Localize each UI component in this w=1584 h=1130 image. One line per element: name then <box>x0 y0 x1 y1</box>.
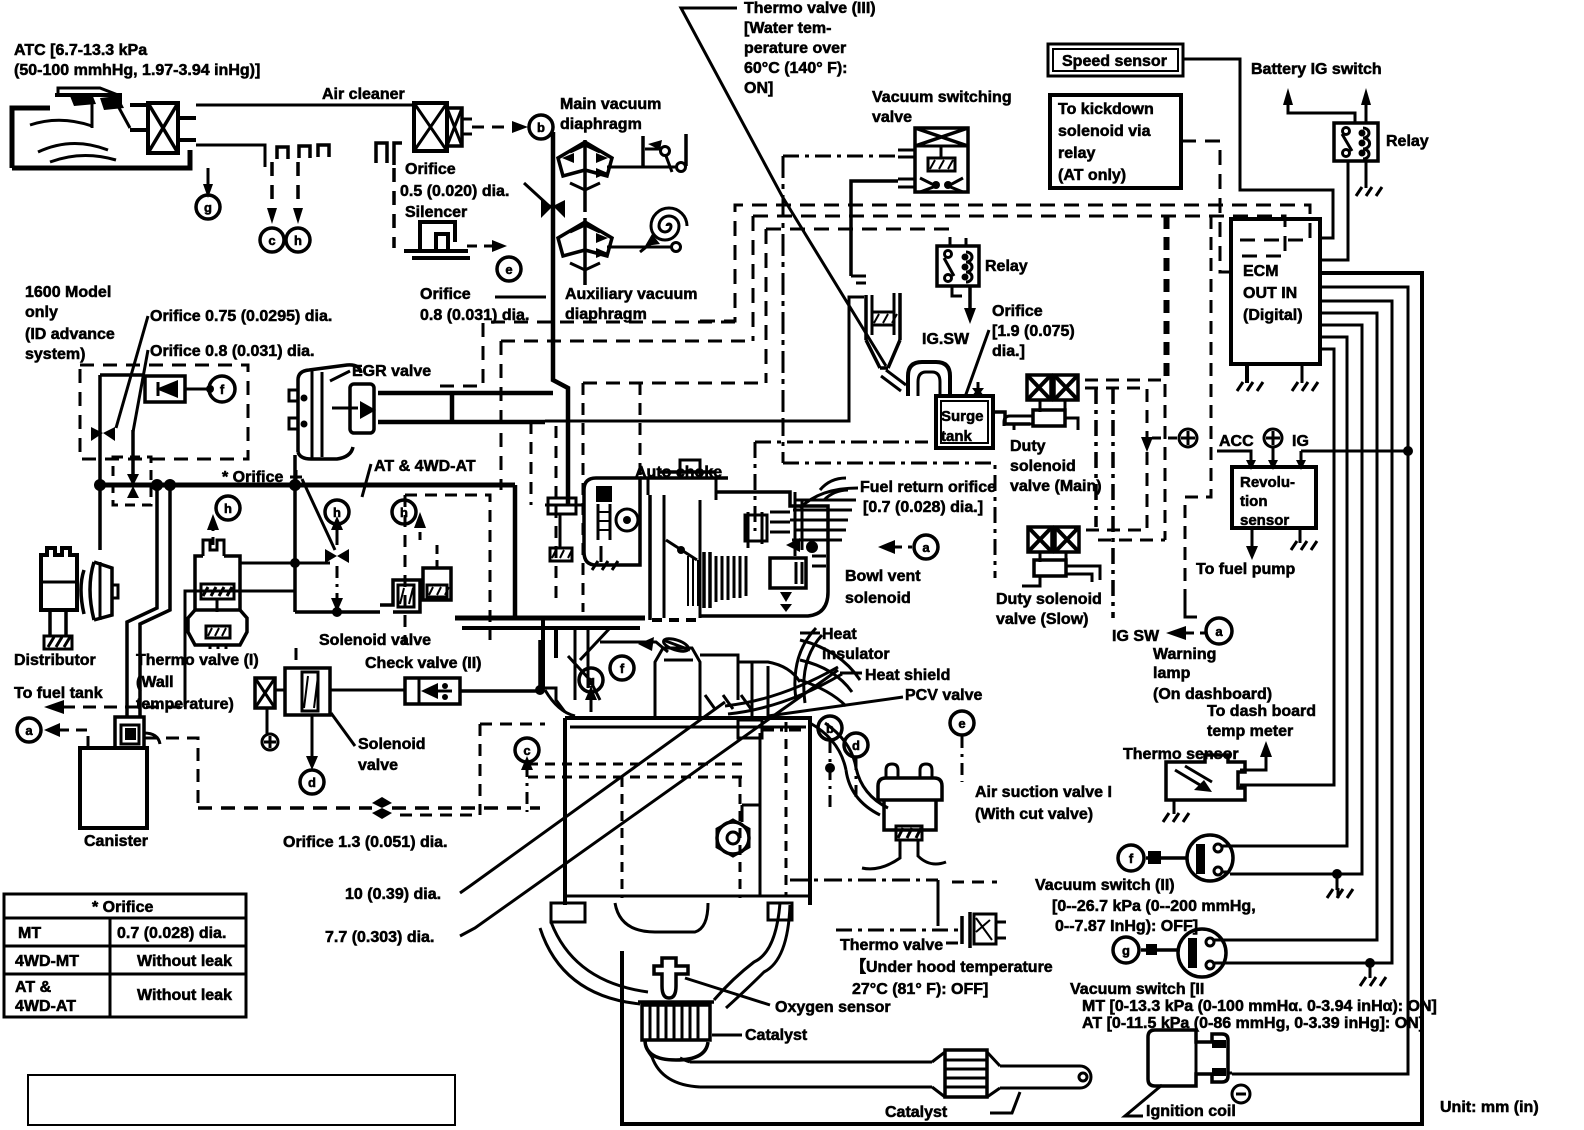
svg-text:Ignition coil: Ignition coil <box>1146 1103 1236 1120</box>
auxiliary vacuum diaphragm <box>558 208 687 285</box>
node f vacuum switch <box>1118 845 1144 871</box>
svg-text:b: b <box>537 120 545 135</box>
wire 10 dia leader <box>460 702 725 893</box>
svg-text:valve (Main): valve (Main) <box>1010 478 1102 495</box>
vacuum switch f <box>1146 835 1233 881</box>
vacuum switching valve <box>898 128 968 192</box>
wire ACC <box>1217 451 1251 462</box>
svg-text:AT & 4WD-AT: AT & 4WD-AT <box>374 458 476 475</box>
wire heat insulator leader <box>800 632 820 635</box>
svg-text:Thermo valve (I): Thermo valve (I) <box>136 652 259 669</box>
svg-text:1600 Model: 1600 Model <box>25 284 111 301</box>
svg-text:Without leak: Without leak <box>137 953 232 970</box>
funnel IG.SW inlet <box>866 293 906 391</box>
svg-text:h: h <box>400 505 408 520</box>
svg-text:diaphragm: diaphragm <box>565 306 647 323</box>
AT box solenoid <box>423 545 451 600</box>
svg-text:temp meter: temp meter <box>1207 723 1293 740</box>
wire ECM bundle 6 to ignition coil <box>1232 287 1408 1074</box>
svg-text:To fuel tank: To fuel tank <box>14 685 103 702</box>
wire plus terminal stem <box>1272 448 1275 462</box>
lower solenoid valve body <box>275 668 405 770</box>
wire dash-dot duty drops <box>1094 388 1098 527</box>
wire dashed aux box inner <box>501 340 753 343</box>
svg-text:(AT only): (AT only) <box>1058 167 1126 184</box>
svg-text:Orifice 0.75 (0.0295) dia.: Orifice 0.75 (0.0295) dia. <box>150 308 332 325</box>
wire EGR upper pipe to main line <box>378 391 553 396</box>
carburetor body <box>640 460 856 620</box>
air cleaner ATC assembly <box>12 88 196 168</box>
wire check valve to engine <box>460 689 537 693</box>
bottom empty rectangle <box>28 1075 455 1125</box>
svg-text:27°C (81° F): OFF]: 27°C (81° F): OFF] <box>852 981 988 998</box>
svg-text:Duty solenoid: Duty solenoid <box>996 591 1102 608</box>
svg-text:f: f <box>1129 851 1134 866</box>
svg-text:To fuel pump: To fuel pump <box>1196 561 1295 578</box>
svg-text:Canister: Canister <box>84 833 148 850</box>
auto choke assembly <box>545 478 640 570</box>
wire ECM bundle 7 outermost to bottom line <box>622 273 1422 1124</box>
dashed stub above thermo valve I with h arrow <box>212 528 215 545</box>
wire g arrow engine <box>590 696 593 712</box>
svg-text:0.8 (0.031) dia.: 0.8 (0.031) dia. <box>420 307 529 324</box>
wire thermo sensor right up arrow <box>1240 755 1266 770</box>
svg-text:Auxiliary vacuum: Auxiliary vacuum <box>565 286 698 303</box>
svg-text:Solenoid: Solenoid <box>358 736 426 753</box>
wire bus main horizontal <box>100 483 515 488</box>
ground ECM left <box>1245 364 1249 383</box>
distributor <box>41 548 118 649</box>
svg-text:Check valve (II): Check valve (II) <box>365 655 482 672</box>
wire bus corner down to engine <box>513 485 518 620</box>
duty solenoid valve main <box>1004 375 1078 430</box>
svg-text:* Orifice: * Orifice <box>92 899 153 916</box>
wire dashed drop to silencer <box>392 168 396 248</box>
wire orifice 1.9 leader <box>965 330 989 397</box>
ground under vacuum switch g line <box>1365 958 1375 968</box>
wire EGR lower pipe <box>378 420 545 425</box>
svg-text:Speed sensor: Speed sensor <box>1062 53 1167 70</box>
svg-text:relay: relay <box>1058 145 1095 162</box>
svg-text:Air suction valve I: Air suction valve I <box>975 784 1112 801</box>
wire orifice 0.8 leader to main line <box>495 296 546 299</box>
svg-text:IG: IG <box>1292 433 1309 450</box>
svg-text:dia.]: dia.] <box>992 343 1025 360</box>
svg-text:4WD-MT: 4WD-MT <box>15 953 79 970</box>
wire dashed bus B <box>753 216 1285 256</box>
Orifice table <box>4 894 246 1017</box>
node plus duty <box>1179 429 1197 447</box>
Speed sensor box <box>1048 44 1183 76</box>
wire revolution sensor ground <box>1299 528 1302 543</box>
distributor advance diaphragm <box>81 562 94 620</box>
svg-text:0--7.87 InHg): OFF]: 0--7.87 InHg): OFF] <box>1055 918 1198 935</box>
svg-text:g: g <box>204 200 212 215</box>
svg-text:0.5 (0.020) dia.: 0.5 (0.020) dia. <box>400 183 509 200</box>
svg-text:Fuel return orifice: Fuel return orifice <box>860 479 996 496</box>
svg-text:perature over: perature over <box>744 40 846 57</box>
svg-text:IG.SW: IG.SW <box>922 331 970 348</box>
minus terminal circle <box>1232 1085 1250 1103</box>
svg-text:Thermo valve: Thermo valve <box>840 937 943 954</box>
svg-text:Distributor: Distributor <box>14 652 96 669</box>
Revolution sensor box <box>1232 467 1316 528</box>
ECM box <box>1231 219 1320 364</box>
wire air cleaner outlet to orifice block <box>196 104 414 107</box>
wire IG.SW arrow below relay <box>952 286 962 296</box>
svg-text:0.7 (0.028) dia.: 0.7 (0.028) dia. <box>117 925 226 942</box>
svg-text:Heat shield: Heat shield <box>865 667 950 684</box>
wire ECM bundle 5 to vacuum switch g lower pin <box>1228 301 1392 963</box>
check valve II <box>405 678 460 704</box>
wire ID advance vertical <box>98 375 102 485</box>
wire ECM bundle 3 to vacuum switch f lower pin <box>1230 325 1362 874</box>
wire dashed c drop engine <box>526 765 529 812</box>
wire EGR valve leader <box>330 371 350 381</box>
duty solenoid valve slow <box>1022 527 1100 586</box>
wire dashed bus C to relay <box>766 229 950 246</box>
wire dashed from a to canister <box>58 730 88 748</box>
wire ignition coil leader <box>1125 1085 1162 1116</box>
solenoid valve upper part <box>380 580 420 612</box>
node a carb <box>914 535 938 559</box>
svg-text:(With cut valve): (With cut valve) <box>975 806 1093 823</box>
wire heat shield leader <box>840 672 862 675</box>
wire ID advance down to distributor advance <box>98 485 102 550</box>
svg-text:60°C (140° F):: 60°C (140° F): <box>744 60 848 77</box>
svg-text:tank: tank <box>941 428 973 445</box>
wire ECM bundle 2 to vacuum switch f upper pin <box>1230 337 1347 846</box>
PCV valve body <box>738 720 762 738</box>
wire vertical orifice 0.8 line <box>131 430 135 476</box>
wire thermo valve III leader <box>681 8 886 366</box>
svg-text:7.7 (0.303) dia.: 7.7 (0.303) dia. <box>325 929 434 946</box>
svg-text:Heat: Heat <box>822 626 857 643</box>
svg-text:lamp: lamp <box>1153 665 1191 682</box>
node f ID advance <box>209 376 235 402</box>
node g air cleaner <box>196 195 220 219</box>
svg-text:Without leak: Without leak <box>137 987 232 1004</box>
wire relay right pin to ground <box>1365 161 1368 188</box>
wire dashed to fuel tank <box>62 706 182 709</box>
air suction valve I <box>862 764 946 869</box>
svg-text:Orifice 1.3 (0.051) dia.: Orifice 1.3 (0.051) dia. <box>283 834 448 851</box>
wire exhaust pressure pipe to vacuum switch <box>790 879 938 882</box>
svg-text:g: g <box>587 673 595 688</box>
svg-text:To kickdown: To kickdown <box>1058 101 1154 118</box>
orifice 0.8 dashed box <box>113 457 151 505</box>
svg-text:[1.9 (0.075): [1.9 (0.075) <box>992 323 1075 340</box>
svg-text:OUT IN: OUT IN <box>1243 285 1297 302</box>
node g vacuum switch <box>1113 937 1139 963</box>
node h EGR branch <box>325 500 349 524</box>
wire dash-dot d drop <box>855 758 858 800</box>
wire revolution sensor to fuel pump <box>1251 528 1254 548</box>
wire canister line pair from bus <box>127 485 157 716</box>
svg-text:Orifice: Orifice <box>420 286 471 303</box>
wire 7.7 dia leader <box>460 670 838 936</box>
svg-text:Oxygen sensor: Oxygen sensor <box>775 999 891 1016</box>
wire * orifice leader <box>290 476 302 479</box>
Surge tank box <box>936 396 993 448</box>
wire orifice 0.8 leader2 <box>133 350 148 432</box>
node e silencer <box>497 257 521 281</box>
ignition coil <box>1148 1030 1232 1086</box>
svg-text:solenoid: solenoid <box>1010 458 1076 475</box>
svg-text:d: d <box>308 775 316 790</box>
wire IG to bundle <box>1301 450 1408 453</box>
wire dashed arrow to a carb <box>893 546 912 549</box>
main vacuum diaphragm <box>558 134 686 212</box>
wire dashed drop to h <box>296 162 300 210</box>
svg-text:Catalyst: Catalyst <box>745 1027 808 1044</box>
svg-text:Battery IG switch: Battery IG switch <box>1251 61 1382 78</box>
node e engine <box>950 711 974 735</box>
node h AT box <box>392 500 416 524</box>
svg-text:ACC: ACC <box>1219 433 1254 450</box>
svg-text:Solenoid valve: Solenoid valve <box>319 632 431 649</box>
vacuum switch g <box>1141 929 1228 977</box>
wire dashed solenoid box <box>480 723 545 726</box>
oxygen sensor <box>654 958 770 1005</box>
wire ECM bundle 1 to thermo sensor <box>1240 349 1334 785</box>
wire orifice 0.75 leader <box>116 316 148 428</box>
wire manifold line to vacuum switching valve drop <box>545 297 864 421</box>
head bolt <box>717 822 749 854</box>
heat insulator curve <box>795 628 822 703</box>
svg-text:AT [0-11.5 kPa (0-86 mmHg, 0-3: AT [0-11.5 kPa (0-86 mmHg, 0-3.39 inHg]:… <box>1082 1015 1424 1032</box>
EGR valve <box>289 365 376 459</box>
svg-text:Silencer: Silencer <box>405 204 467 221</box>
svg-text:a: a <box>1215 624 1223 639</box>
svg-text:(On dashboard): (On dashboard) <box>1153 686 1272 703</box>
orifice 0.75 bowtie <box>91 427 103 441</box>
svg-text:(50-100 mmhHg, 1.97-3.94 inHg): (50-100 mmhHg, 1.97-3.94 inHg)] <box>14 62 260 79</box>
svg-text:a: a <box>922 540 930 555</box>
wire orifice 0.5 leader <box>524 183 548 205</box>
svg-text:tion: tion <box>1240 493 1268 510</box>
node b engine <box>818 716 842 740</box>
wire dash-dot PCV <box>762 729 802 732</box>
svg-text:Orifice 0.8 (0.031) dia.: Orifice 0.8 (0.031) dia. <box>150 343 315 360</box>
wire fuel return leader <box>800 488 858 508</box>
To kickdown solenoid box <box>1050 95 1181 188</box>
svg-text:Orifice: Orifice <box>992 303 1043 320</box>
svg-text:e: e <box>958 716 965 731</box>
svg-text:IG SW: IG SW <box>1112 628 1160 645</box>
wire dashed verticals carb area <box>530 422 533 505</box>
svg-text:4WD-AT: 4WD-AT <box>15 998 76 1015</box>
wire surge tank right pipe to duty main <box>993 412 1030 424</box>
surge tank pipes <box>908 362 984 396</box>
svg-text:[0.7 (0.028) dia.]: [0.7 (0.028) dia.] <box>863 499 983 516</box>
wire ECM bundle 4 to vacuum switch g upper pin <box>1227 313 1377 940</box>
svg-text:c: c <box>523 743 530 758</box>
wire dash-dot carb to surge tank <box>755 441 928 444</box>
node plus solenoid <box>262 734 278 750</box>
svg-text:f: f <box>220 382 225 397</box>
svg-text:b: b <box>826 721 834 736</box>
svg-text:Warning: Warning <box>1153 646 1216 663</box>
wire dashed aux box outer <box>440 322 735 386</box>
svg-text:g: g <box>1122 943 1130 958</box>
svg-text:【Under hood temperature: 【Under hood temperature <box>850 958 1053 976</box>
engine block <box>528 628 810 1008</box>
intake manifold heavy lines <box>455 618 690 700</box>
exhaust pipe to rear catalyst <box>645 1040 1091 1113</box>
wire dashed warning lamp route <box>1185 216 1211 600</box>
svg-text:diaphragm: diaphragm <box>560 116 642 133</box>
wire silencer dashed arrow to e <box>467 245 494 248</box>
wire branch to fuel tank leg <box>185 591 295 707</box>
wire EGR drop <box>293 455 297 612</box>
wire dashed bus A to ECM <box>700 205 1310 321</box>
node h thermo valve I <box>216 496 240 520</box>
svg-text:sensor: sensor <box>1240 512 1289 529</box>
wire air cleaner lower stub <box>196 145 265 167</box>
wire dash-dot e drop <box>961 736 964 782</box>
svg-text:ON]: ON] <box>744 80 773 97</box>
wire thermo valve I output <box>240 562 295 565</box>
svg-text:Main vacuum: Main vacuum <box>560 96 661 113</box>
wire IG stem <box>1300 451 1303 462</box>
canister top valve <box>115 717 160 748</box>
svg-text:only: only <box>25 304 58 321</box>
svg-text:MT [0-13.3 kPa (0-100 mmHα. 0-: MT [0-13.3 kPa (0-100 mmHα. 0-3.94 inHα)… <box>1082 998 1437 1015</box>
ID advance servo <box>145 376 214 402</box>
bowtie valve on main line <box>541 200 553 218</box>
svg-text:(Digital): (Digital) <box>1243 307 1303 324</box>
svg-text:Air cleaner: Air cleaner <box>322 86 405 103</box>
wire AT box leader <box>362 464 371 497</box>
svg-text:valve (Slow): valve (Slow) <box>996 611 1088 628</box>
svg-text:MT: MT <box>18 925 41 942</box>
ground under bundle near vacuum switch <box>1337 888 1340 898</box>
node d engine <box>844 733 868 757</box>
svg-text:Revolu-: Revolu- <box>1240 474 1295 491</box>
wire hose hanger brackets <box>277 147 288 159</box>
svg-text:AT &: AT & <box>15 979 52 996</box>
svg-text:Orifice: Orifice <box>405 161 456 178</box>
catalyst front <box>638 1002 742 1060</box>
thermo valve I <box>188 540 247 649</box>
orifice 0.8 bowtie vertical <box>127 474 139 486</box>
wire relay to ECM <box>1320 161 1348 260</box>
svg-text:ECM: ECM <box>1243 263 1279 280</box>
svg-text:solenoid via: solenoid via <box>1058 123 1151 140</box>
ground under vacuum switch f line <box>1332 869 1342 879</box>
wire h branch orifice assembly <box>295 562 330 565</box>
wire IG SW dashed arrow <box>1186 632 1206 635</box>
heat shield curve <box>725 667 842 714</box>
relay top right <box>1334 123 1378 161</box>
svg-text:Catalyst: Catalyst <box>885 1104 948 1121</box>
svg-text:system): system) <box>25 346 85 363</box>
svg-text:[0--26.7 kPa (0--200 mmHg,: [0--26.7 kPa (0--200 mmHg, <box>1052 898 1256 915</box>
svg-text:solenoid: solenoid <box>845 590 911 607</box>
svg-text:Unit: mm (in): Unit: mm (in) <box>1440 1099 1539 1116</box>
svg-text:(ID advance: (ID advance <box>25 326 115 343</box>
svg-text:Duty: Duty <box>1010 438 1046 455</box>
exhaust manifold pipes right <box>800 640 888 815</box>
wire canister dashed to orifice 1.3 <box>145 738 198 808</box>
orifice block with silencer <box>414 103 472 151</box>
node a IG SW <box>1206 618 1232 644</box>
svg-text:Relay: Relay <box>985 258 1028 275</box>
thermo sensor <box>1163 755 1245 822</box>
svg-text:a: a <box>25 723 33 738</box>
node h <box>286 228 310 252</box>
node plus revolution <box>1264 429 1282 447</box>
svg-text:valve: valve <box>358 757 398 774</box>
node b orifice <box>529 115 553 139</box>
bowtie h branch <box>325 549 337 563</box>
wire dashed arrow to b <box>472 126 516 129</box>
svg-text:h: h <box>294 233 302 248</box>
svg-text:Vacuum switch [II: Vacuum switch [II <box>1070 981 1204 998</box>
node f engine <box>610 656 634 680</box>
wire dashed duty main right <box>1085 379 1168 382</box>
svg-text:PCV valve: PCV valve <box>905 687 982 704</box>
node c <box>260 228 284 252</box>
svg-text:EGR valve: EGR valve <box>352 363 431 380</box>
junction dot on IG wire <box>1403 446 1413 456</box>
relay center <box>937 238 979 286</box>
wire dash-dot b drop <box>829 741 832 812</box>
wire PCV leader <box>768 697 903 716</box>
wire battery arrow left <box>1288 103 1355 123</box>
node c engine <box>515 738 539 762</box>
wire battery arrow right <box>1365 103 1368 123</box>
wire vacuum switching valve solid drop <box>851 181 898 276</box>
wire dash-dot to vacuum switching valve <box>783 155 898 158</box>
wire AT 4WD-AT dashed box <box>405 495 490 640</box>
svg-text:d: d <box>852 738 860 753</box>
heat insulator dashes <box>652 618 696 622</box>
svg-text:Vacuum switching: Vacuum switching <box>872 89 1012 106</box>
lower solenoid valve X-box <box>255 678 275 734</box>
svg-text:f: f <box>620 661 625 676</box>
svg-text:Vacuum switch (II): Vacuum switch (II) <box>1035 877 1175 894</box>
wire main vacuum line vertical <box>553 132 568 505</box>
Canister box <box>80 748 147 828</box>
ID advance dashed box <box>80 365 248 459</box>
wire dashed drop to c <box>270 162 274 210</box>
spiral coil <box>651 208 687 240</box>
svg-text:10 (0.39) dia.: 10 (0.39) dia. <box>345 886 441 903</box>
ground top relay <box>1356 187 1382 196</box>
svg-text:Relay: Relay <box>1386 133 1429 150</box>
svg-text:h: h <box>333 505 341 520</box>
svg-text:e: e <box>505 262 512 277</box>
orifice 1.3 bowtie <box>372 797 382 808</box>
node a canister <box>17 718 41 742</box>
svg-text:Surge: Surge <box>941 408 984 425</box>
svg-text:valve: valve <box>872 109 912 126</box>
svg-text:ATC [6.7-13.3 kPa: ATC [6.7-13.3 kPa <box>14 42 147 59</box>
wire arrow down to g <box>207 168 210 186</box>
wire speed sensor to ECM <box>1183 59 1333 238</box>
svg-text:Thermo valve (III): Thermo valve (III) <box>744 0 876 17</box>
thermo valve under hood <box>836 912 1006 948</box>
svg-text:h: h <box>224 501 232 516</box>
svg-text:[Water tem-: [Water tem- <box>744 20 831 37</box>
wire horizontal to solenoid assembly <box>295 610 380 614</box>
wire dashed kickdown to ECM <box>1181 141 1231 272</box>
node d solenoid valve <box>300 770 324 794</box>
svg-text:Bowl vent: Bowl vent <box>845 568 921 585</box>
junction dots on bus <box>94 479 106 491</box>
